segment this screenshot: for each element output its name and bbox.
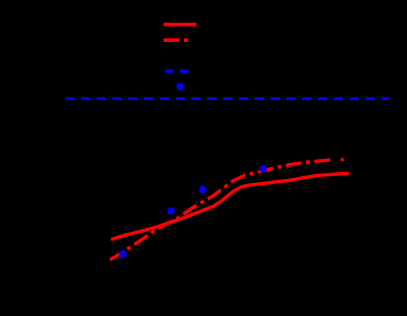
red dash-dot curve: [110, 160, 332, 260]
blue data marker 4: [259, 165, 267, 173]
blue data marker 3: [199, 186, 207, 194]
legend blue circle marker sample: [176, 83, 183, 90]
red dash-dot curve final dot: [341, 158, 344, 162]
legend blue dashed line sample: [165, 69, 189, 72]
red solid curve: [111, 173, 349, 239]
blue data marker 1: [119, 250, 127, 258]
legend red solid line sample: [164, 23, 197, 27]
blue dashed horizontal threshold line: [65, 97, 389, 100]
blue data marker 2: [167, 207, 175, 215]
legend red dash-dot line sample: [164, 38, 189, 42]
